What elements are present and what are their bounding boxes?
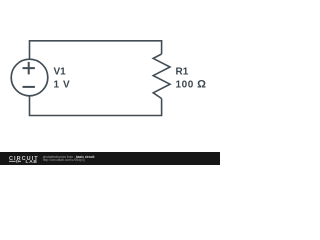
svg-text:LAB: LAB: [26, 159, 38, 165]
voltage source V1 circle: [11, 59, 48, 96]
minus symbol inside V1: [23, 86, 35, 88]
svg-text:http://circuitlab.com/c/59dp4j: http://circuitlab.com/c/59dp4j: [43, 158, 85, 162]
svg-text:1 V: 1 V: [54, 80, 71, 91]
svg-text:100 Ω: 100 Ω: [176, 79, 207, 91]
CircuitLab logo wire-battery symbol: [9, 160, 21, 163]
footer black bar: [0, 152, 220, 165]
wire: top horizontal from V1 to R1: [30, 41, 162, 59]
resistor R1 zigzag: [153, 54, 170, 99]
svg-text:R1: R1: [176, 67, 189, 78]
plus symbol inside V1: [23, 62, 35, 75]
wire: bottom horizontal from V1 to R1: [30, 96, 162, 116]
svg-text:V1: V1: [54, 67, 67, 78]
